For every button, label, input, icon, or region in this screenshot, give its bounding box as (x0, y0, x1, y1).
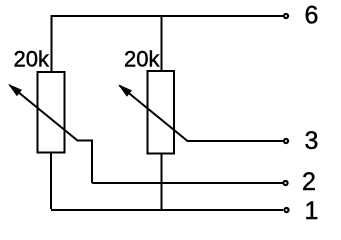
svg-text:20k: 20k (14, 47, 50, 72)
wire: top bus from left pot top to pin 6 (52, 16, 284, 72)
terminal pin 6 (284, 14, 288, 18)
wiper arrow of left potentiometer (10, 85, 93, 183)
terminal pin 1 (284, 208, 288, 212)
wire: right pot top lead (T junction on top bus) (161, 15, 163, 71)
potentiometer body (right, 20k) (148, 71, 175, 154)
wire: right pot bottom lead (crosses pin 2 wire, joins bottom bus) (161, 154, 163, 211)
svg-text:2: 2 (302, 168, 316, 196)
terminal pin 3 (284, 139, 288, 143)
svg-text:20k: 20k (124, 47, 160, 72)
terminal pin 2 (283, 181, 287, 185)
svg-text:6: 6 (305, 2, 319, 30)
svg-text:1: 1 (305, 197, 319, 221)
wire: bottom bus to pin 1 (51, 209, 283, 211)
wire: pin 2 wire from left wiper (92, 182, 283, 184)
potentiometer body (left, 20k) (38, 72, 65, 153)
svg-text:3: 3 (305, 127, 319, 155)
wire: left pot bottom lead (50, 153, 52, 210)
wiper arrow of right potentiometer (120, 86, 284, 142)
